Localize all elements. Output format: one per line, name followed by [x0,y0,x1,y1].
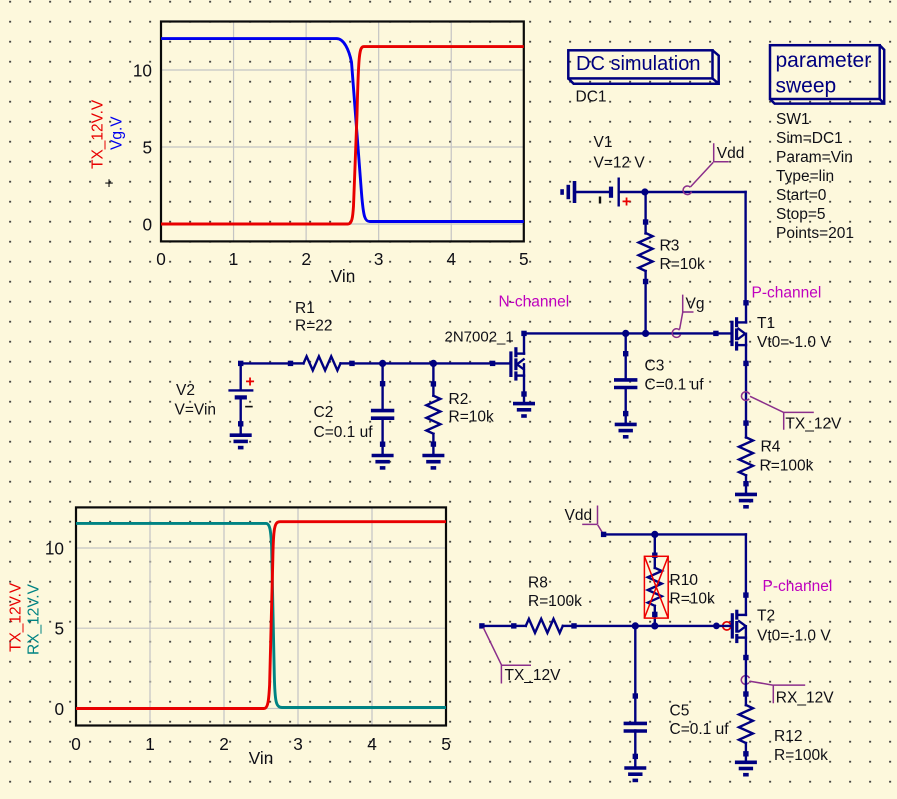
svg-text:Vin: Vin [331,266,356,286]
svg-text:C=0.1 uf: C=0.1 uf [645,377,705,394]
svg-text:+: + [622,194,631,211]
svg-text:V2: V2 [176,382,195,399]
svg-text:N-channel: N-channel [499,294,570,311]
svg-text:TX_12V: TX_12V [785,416,842,433]
svg-text:R=100k: R=100k [528,593,582,610]
svg-text:Stop=5: Stop=5 [776,206,826,223]
svg-text:R8: R8 [528,575,548,592]
svg-text:0: 0 [142,215,152,235]
svg-text:1: 1 [145,734,155,754]
svg-text:sweep: sweep [776,75,837,98]
svg-text:4: 4 [367,734,377,754]
svg-text:R12: R12 [774,728,802,745]
svg-text:3: 3 [293,734,303,754]
svg-text:V=12 V: V=12 V [594,155,646,172]
svg-text:R1: R1 [295,300,315,317]
svg-text:TX_12V: TX_12V [505,667,562,684]
svg-text:Param=Vin: Param=Vin [776,149,853,166]
svg-text:RX_12V.V: RX_12V.V [26,583,43,655]
svg-text:TX_12V.V: TX_12V.V [90,99,107,169]
svg-text:Type=lin: Type=lin [776,168,834,185]
svg-text:5: 5 [441,734,451,754]
svg-text:+: + [245,374,254,391]
svg-text:Vg: Vg [686,296,705,313]
svg-text:1: 1 [229,249,239,269]
svg-text:Sim=DC1: Sim=DC1 [776,130,843,147]
svg-text:SW1: SW1 [776,111,810,128]
svg-text:R=10k: R=10k [660,256,705,273]
svg-text:2N7002_1: 2N7002_1 [445,329,514,346]
svg-text:2: 2 [219,734,229,754]
svg-text:4: 4 [446,249,456,269]
svg-text:Vin: Vin [249,748,274,768]
svg-text:R=10k: R=10k [670,591,715,608]
svg-text:10: 10 [133,61,152,81]
svg-text:2: 2 [301,249,311,269]
svg-text:Vdd: Vdd [717,145,745,162]
svg-text:P-channel: P-channel [763,578,833,595]
svg-text:DC simulation: DC simulation [576,53,700,75]
svg-text:R4: R4 [761,439,781,456]
svg-text:Vg.V: Vg.V [109,116,126,150]
svg-text:−: − [245,399,254,416]
svg-text:R=10k: R=10k [449,409,494,426]
svg-text:parameter: parameter [776,49,872,72]
svg-text:0: 0 [71,734,81,754]
svg-text:3: 3 [374,249,384,269]
svg-text:T1: T1 [757,315,775,332]
svg-text:Points=201: Points=201 [776,225,854,242]
svg-text:10: 10 [45,539,64,559]
svg-text:+: + [104,176,113,193]
svg-text:TX_12V.V: TX_12V.V [8,582,25,652]
svg-text:V=Vin: V=Vin [175,402,217,419]
svg-text:5: 5 [54,619,64,639]
svg-text:C5: C5 [670,703,690,720]
svg-text:C2: C2 [314,404,334,421]
svg-text:DC1: DC1 [576,89,607,106]
svg-text:5: 5 [519,249,529,269]
svg-text:C=0.1 uf: C=0.1 uf [670,721,730,738]
svg-text:C3: C3 [645,358,665,375]
svg-text:Vt0=-1.0 V: Vt0=-1.0 V [757,628,831,645]
svg-text:0: 0 [156,249,166,269]
svg-text:Vdd: Vdd [565,507,593,524]
svg-text:P-channel: P-channel [752,285,822,302]
svg-text:Vt0=-1.0 V: Vt0=-1.0 V [757,334,831,351]
svg-text:T2: T2 [757,608,775,625]
svg-text:R=100k: R=100k [774,747,828,764]
svg-text:R2: R2 [449,391,469,408]
svg-text:0: 0 [54,699,64,719]
svg-text:R=22: R=22 [295,318,333,335]
svg-text:Start=0: Start=0 [776,187,827,204]
svg-text:RX_12V: RX_12V [776,689,834,706]
svg-text:5: 5 [142,138,152,158]
svg-text:V1: V1 [594,134,613,151]
svg-text:R3: R3 [660,238,680,255]
svg-text:R10: R10 [670,572,699,589]
svg-text:C=0.1 uf: C=0.1 uf [314,424,374,441]
svg-text:R=100k: R=100k [760,458,814,475]
